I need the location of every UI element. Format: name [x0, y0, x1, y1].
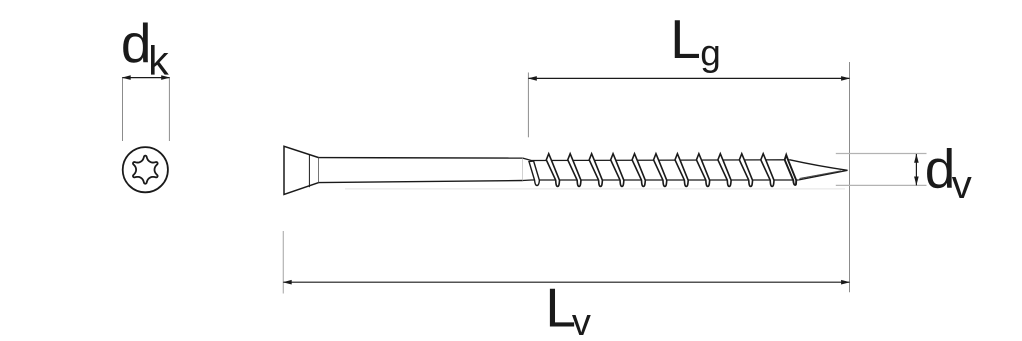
svg-text:v: v [572, 302, 591, 341]
thread turn 8 [696, 154, 709, 187]
screw point [790, 160, 848, 180]
svg-text:d: d [121, 12, 152, 74]
dimension line d_v [915, 154, 917, 185]
thread turn 6 [654, 154, 667, 187]
thread turn 4 [611, 154, 624, 187]
thread turn 1 [546, 154, 559, 187]
extension line d_k left [122, 77, 124, 141]
shadow under shank [345, 188, 845, 190]
svg-text:v: v [952, 163, 972, 207]
extension line L_g left [527, 73, 529, 138]
dimension line L_v [283, 281, 849, 283]
torx recess [133, 156, 158, 184]
thread turn 5 [632, 154, 645, 187]
extension line d_k right [168, 77, 170, 141]
extension line L_v left [282, 231, 284, 294]
thread turn 7 [675, 154, 688, 187]
dimension line d_k [123, 77, 170, 79]
extension line right (shared L_g / L_v) [849, 62, 851, 292]
thread turn 2 [568, 154, 581, 187]
thread turn 3 [589, 154, 602, 187]
thread turn 9 [718, 154, 731, 187]
thread start partial turn [529, 161, 539, 186]
head-shank junction line [318, 158, 320, 183]
screw countersunk head (side view) [284, 146, 319, 194]
svg-text:L: L [670, 8, 701, 70]
extension line d_v bottom [836, 184, 927, 186]
extension line d_v top [836, 153, 927, 155]
dimension line L_g [528, 77, 849, 79]
head rim line [308, 155, 310, 187]
point flute line [800, 171, 842, 179]
screw head circle (top view) [123, 147, 168, 192]
thread turn 10 [739, 154, 752, 187]
svg-text:g: g [700, 32, 721, 73]
thread core outline [523, 158, 848, 180]
shank outline [319, 158, 523, 183]
thread turn 12 [785, 155, 797, 185]
shank-thread transition line [522, 158, 524, 180]
thread turn 11 [761, 154, 774, 187]
svg-text:d: d [925, 137, 956, 199]
